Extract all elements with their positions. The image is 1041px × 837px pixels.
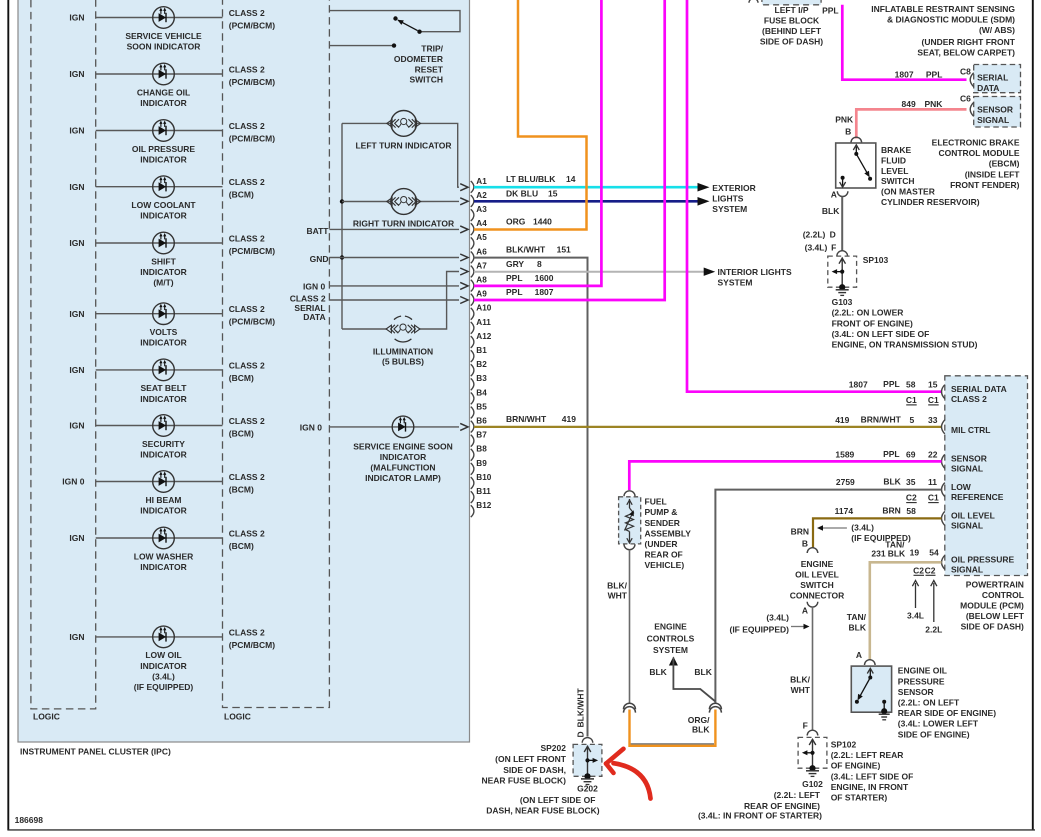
svg-text:19: 19	[910, 548, 920, 558]
fuel pump & sender assembly	[624, 491, 635, 496]
svg-text:IGN 0: IGN 0	[62, 477, 84, 487]
left turn indicator lamp	[387, 111, 421, 137]
wire PPL 1807 vertical from top to PCM serial data	[687, 0, 942, 392]
pin B2	[471, 364, 474, 376]
svg-text:SEAT, BELOW CARPET): SEAT, BELOW CARPET)	[917, 47, 1015, 57]
wire BLK/WHT 151 (A6 down to SP202)	[474, 258, 588, 737]
trip/odometer reset switch	[330, 11, 460, 32]
left I/P fuse block	[762, 0, 821, 5]
indicator HI BEAM	[153, 471, 175, 493]
svg-text:CLASS 2: CLASS 2	[229, 233, 265, 243]
svg-text:REAR SIDE OF ENGINE): REAR SIDE OF ENGINE)	[898, 708, 996, 718]
svg-text:A2: A2	[476, 191, 487, 200]
svg-text:DATA: DATA	[977, 83, 999, 93]
svg-text:PPL: PPL	[506, 273, 523, 283]
svg-text:EXTERIOR: EXTERIOR	[712, 183, 755, 193]
svg-text:INDICATOR: INDICATOR	[140, 267, 186, 277]
svg-text:CLASS 2: CLASS 2	[229, 416, 265, 426]
svg-text:B: B	[845, 127, 851, 137]
svg-text:PNK: PNK	[835, 115, 854, 125]
svg-text:CLASS 2: CLASS 2	[229, 64, 265, 74]
svg-text:LOW: LOW	[951, 482, 972, 492]
svg-text:LOGIC: LOGIC	[33, 712, 60, 722]
svg-text:ILLUMINATION: ILLUMINATION	[373, 346, 433, 356]
svg-text:BLK: BLK	[849, 623, 867, 633]
svg-text:A3: A3	[476, 205, 487, 214]
svg-text:DASH, NEAR FUSE BLOCK): DASH, NEAR FUSE BLOCK)	[486, 806, 600, 816]
svg-text:IGN: IGN	[69, 632, 84, 642]
svg-text:INDICATOR: INDICATOR	[380, 452, 426, 462]
svg-text:BLK/WHT: BLK/WHT	[506, 245, 546, 255]
pin A10	[471, 308, 474, 320]
indicator LOW OIL	[153, 626, 175, 648]
svg-text:PPL: PPL	[883, 379, 900, 389]
svg-text:OIL LEVEL: OIL LEVEL	[795, 569, 839, 579]
svg-text:ASSEMBLY: ASSEMBLY	[645, 528, 692, 538]
svg-text:CONTROLS: CONTROLS	[647, 634, 695, 644]
instrument panel cluster (IPC) box	[18, 0, 470, 742]
svg-text:(BCM): (BCM)	[229, 373, 254, 383]
svg-text:CLASS 2: CLASS 2	[951, 394, 987, 404]
ground bus wire	[341, 123, 343, 329]
svg-text:SWITCH: SWITCH	[881, 176, 915, 186]
svg-text:IGN: IGN	[69, 309, 84, 319]
svg-text:CLASS 2: CLASS 2	[229, 121, 265, 131]
svg-text:SYSTEM: SYSTEM	[653, 645, 688, 655]
wire GRY 8 (A7 to interior lights)	[474, 271, 704, 273]
svg-text:CLASS 2: CLASS 2	[229, 360, 265, 370]
page border frame	[7, 0, 9, 830]
pin B8	[471, 449, 474, 461]
svg-text:SEAT BELT: SEAT BELT	[141, 383, 188, 393]
svg-text:B2: B2	[476, 360, 487, 369]
svg-text:ENGINE OIL: ENGINE OIL	[898, 666, 947, 676]
splice SP103	[828, 256, 857, 287]
indicator OIL PRESSURE	[153, 120, 175, 142]
svg-text:(2.2L: LEFT: (2.2L: LEFT	[774, 790, 821, 800]
svg-text:8: 8	[537, 259, 542, 269]
svg-text:BATT: BATT	[306, 226, 329, 236]
svg-text:IGN 0: IGN 0	[303, 281, 325, 291]
svg-text:C2: C2	[906, 493, 917, 503]
svg-text:SIGNAL: SIGNAL	[951, 521, 983, 531]
svg-text:(3.4L: LEFT SIDE OF: (3.4L: LEFT SIDE OF	[831, 771, 914, 781]
svg-text:A: A	[831, 190, 837, 200]
svg-text:419: 419	[835, 415, 849, 425]
svg-text:SENSOR: SENSOR	[951, 454, 987, 464]
red annotation arrow	[614, 763, 651, 798]
svg-text:849: 849	[902, 99, 916, 109]
svg-text:CLASS 2: CLASS 2	[229, 528, 265, 538]
svg-text:A: A	[856, 650, 862, 660]
PCM pin SENSOR	[942, 454, 945, 468]
svg-text:D: D	[830, 230, 836, 240]
svg-text:(BCM): (BCM)	[229, 429, 254, 439]
svg-text:69: 69	[906, 449, 916, 459]
pin A8	[471, 280, 474, 292]
svg-text:SENSOR: SENSOR	[977, 104, 1013, 114]
engine oil pressure sensor	[851, 666, 891, 712]
indicator VOLTS	[153, 303, 175, 325]
wire PNK 849 to EBCM sensor signal	[856, 109, 966, 138]
wire PPL 1807 fuse block to EBCM serial data	[842, 5, 966, 80]
pin B7	[471, 435, 474, 447]
svg-text:RIGHT TURN INDICATOR: RIGHT TURN INDICATOR	[353, 219, 454, 229]
inline connector arcs right	[709, 703, 721, 709]
svg-text:(PCM/BCM): (PCM/BCM)	[229, 77, 275, 87]
svg-text:B4: B4	[476, 388, 487, 397]
svg-text:POWERTRAIN: POWERTRAIN	[966, 580, 1024, 590]
svg-text:A6: A6	[476, 247, 487, 256]
svg-text:DK BLU: DK BLU	[506, 188, 538, 198]
pin A2	[471, 195, 474, 207]
svg-text:B5: B5	[476, 402, 487, 411]
svg-text:151: 151	[557, 245, 571, 255]
pin A9	[471, 294, 474, 306]
svg-text:2.2L: 2.2L	[925, 625, 942, 635]
svg-text:SIDE OF DASH): SIDE OF DASH)	[961, 621, 1024, 631]
svg-text:INTERIOR LIGHTS: INTERIOR LIGHTS	[718, 267, 792, 277]
svg-text:CONTROL MODULE: CONTROL MODULE	[938, 148, 1019, 158]
svg-text:PUMP &: PUMP &	[645, 507, 678, 517]
svg-text:SP202: SP202	[540, 743, 566, 753]
svg-text:REAR OF: REAR OF	[645, 550, 683, 560]
svg-text:SERIAL DATA: SERIAL DATA	[951, 384, 1007, 394]
svg-text:CLASS 2: CLASS 2	[229, 8, 265, 18]
svg-text:C6: C6	[960, 94, 971, 104]
svg-text:OF STARTER): OF STARTER)	[831, 793, 888, 803]
svg-text:C1: C1	[906, 395, 917, 405]
svg-text:G102: G102	[802, 779, 823, 789]
svg-text:ENGINE: ENGINE	[801, 559, 834, 569]
svg-text:DATA: DATA	[303, 312, 325, 322]
svg-text:33: 33	[928, 415, 938, 425]
svg-text:B8: B8	[476, 445, 487, 454]
svg-text:231: 231	[871, 548, 885, 558]
svg-text:A8: A8	[476, 276, 487, 285]
svg-text:G202: G202	[577, 784, 598, 794]
pin A11	[471, 322, 474, 334]
indicator SECURITY	[153, 415, 175, 437]
svg-text:(PCM/BCM): (PCM/BCM)	[229, 21, 275, 31]
svg-text:ELECTRONIC BRAKE: ELECTRONIC BRAKE	[932, 137, 1020, 147]
exterior lights system arrows	[698, 183, 710, 192]
svg-text:LEVEL: LEVEL	[881, 166, 908, 176]
svg-text:(PCM/BCM): (PCM/BCM)	[229, 640, 275, 650]
svg-text:SIDE OF ENGINE): SIDE OF ENGINE)	[898, 729, 970, 739]
svg-text:BLK/WHT: BLK/WHT	[576, 688, 586, 728]
svg-text:SOON INDICATOR: SOON INDICATOR	[127, 41, 201, 51]
splice SP102	[798, 737, 827, 768]
svg-text:PRESSURE: PRESSURE	[898, 676, 945, 686]
svg-text:BLK: BLK	[822, 206, 840, 216]
wire PPL 1600 (A8 up to top)	[474, 0, 601, 286]
svg-text:C8: C8	[960, 67, 971, 77]
right turn indicator wire	[342, 201, 391, 203]
svg-text:B12: B12	[476, 501, 491, 510]
svg-text:(5 BULBS): (5 BULBS)	[382, 357, 424, 367]
pin B4	[471, 393, 474, 405]
svg-text:BLK: BLK	[888, 548, 906, 558]
svg-text:C1: C1	[928, 395, 939, 405]
svg-text:B11: B11	[476, 487, 491, 496]
right turn indicator lamp	[387, 189, 421, 215]
svg-text:5: 5	[909, 415, 914, 425]
illumination lamp (5 bulbs)	[386, 316, 420, 342]
svg-text:INSTRUMENT PANEL CLUSTER (IPC): INSTRUMENT PANEL CLUSTER (IPC)	[20, 747, 171, 757]
pin B5	[471, 407, 474, 419]
svg-text:ODOMETER: ODOMETER	[394, 54, 443, 64]
svg-text:PPL: PPL	[506, 287, 523, 297]
svg-text:D: D	[576, 731, 586, 737]
svg-text:(IF EQUIPPED): (IF EQUIPPED)	[729, 624, 789, 634]
svg-text:CHANGE OIL: CHANGE OIL	[137, 87, 190, 97]
svg-text:OF ENGINE): OF ENGINE)	[831, 761, 881, 771]
svg-text:C2: C2	[925, 565, 936, 575]
svg-text:IGN 0: IGN 0	[300, 422, 322, 432]
svg-text:(W/ ABS): (W/ ABS)	[979, 25, 1015, 35]
svg-text:IGN: IGN	[69, 365, 84, 375]
svg-text:BLK: BLK	[692, 724, 710, 734]
svg-text:IGN: IGN	[69, 182, 84, 192]
svg-text:(PCM/BCM): (PCM/BCM)	[229, 134, 275, 144]
svg-text:LT BLU/BLK: LT BLU/BLK	[506, 174, 556, 184]
svg-text:GRY: GRY	[506, 259, 524, 269]
svg-text:BLK: BLK	[694, 667, 712, 677]
logic box 2	[223, 0, 330, 708]
svg-text:B: B	[802, 539, 808, 549]
svg-text:(2.2L): (2.2L)	[803, 230, 826, 240]
svg-text:SENSOR: SENSOR	[898, 687, 934, 697]
svg-text:FRONT OF ENGINE): FRONT OF ENGINE)	[832, 318, 913, 328]
svg-text:1440: 1440	[533, 217, 552, 227]
svg-text:(UNDER RIGHT FRONT: (UNDER RIGHT FRONT	[922, 37, 1016, 47]
svg-text:SYSTEM: SYSTEM	[718, 277, 753, 287]
svg-text:INDICATOR: INDICATOR	[140, 98, 186, 108]
pin B11	[471, 491, 474, 503]
svg-text:A10: A10	[476, 304, 491, 313]
svg-text:SP102: SP102	[831, 740, 857, 750]
pin B9	[471, 463, 474, 475]
svg-text:TAN/: TAN/	[847, 612, 867, 622]
svg-text:419: 419	[562, 414, 576, 424]
PCM pin LOW	[942, 483, 945, 497]
svg-text:54: 54	[929, 548, 939, 558]
svg-text:(3.4L): (3.4L)	[766, 613, 789, 623]
svg-text:LOW OIL: LOW OIL	[145, 650, 181, 660]
pin A6	[471, 252, 474, 264]
svg-text:BLK/: BLK/	[607, 580, 627, 590]
svg-text:58: 58	[906, 506, 916, 516]
svg-text:SIDE OF DASH): SIDE OF DASH)	[760, 36, 823, 46]
svg-text:(3.4L): (3.4L)	[851, 522, 874, 532]
svg-text:& DIAGNOSTIC MODULE (SDM): & DIAGNOSTIC MODULE (SDM)	[887, 15, 1015, 25]
pin A3	[471, 209, 474, 221]
PCM pin OIL LEVEL	[942, 511, 945, 525]
svg-text:(ON LEFT SIDE OF: (ON LEFT SIDE OF	[520, 795, 596, 805]
svg-text:IGN: IGN	[69, 13, 84, 23]
svg-text:IGN: IGN	[69, 69, 84, 79]
svg-text:(2.2L: LEFT REAR: (2.2L: LEFT REAR	[831, 750, 904, 760]
powertrain control module (PCM) box	[945, 376, 1028, 576]
wire ORG 1440 (A4 up to top)	[474, 0, 587, 230]
svg-text:PPL: PPL	[926, 70, 943, 80]
indicator SHIFT	[153, 232, 175, 254]
pin B12	[471, 505, 474, 517]
indicator CHANGE OIL	[153, 63, 175, 85]
svg-text:(BEHIND LEFT: (BEHIND LEFT	[762, 26, 822, 36]
EBCM sensor signal box	[974, 97, 1021, 128]
svg-text:F: F	[831, 243, 836, 253]
left turn indicator wire	[342, 122, 391, 124]
svg-text:SENDER: SENDER	[645, 518, 680, 528]
svg-text:1174: 1174	[835, 506, 854, 516]
svg-text:15: 15	[928, 380, 938, 390]
svg-text:SP103: SP103	[863, 255, 889, 265]
svg-text:1807: 1807	[895, 70, 914, 80]
svg-text:(PCM/BCM): (PCM/BCM)	[229, 246, 275, 256]
svg-text:(BCM): (BCM)	[229, 190, 254, 200]
svg-text:MODULE (PCM): MODULE (PCM)	[960, 601, 1024, 611]
svg-text:BRN/WHT: BRN/WHT	[506, 414, 547, 424]
svg-text:SHIFT: SHIFT	[151, 256, 176, 266]
pin A12	[471, 336, 474, 348]
svg-text:A9: A9	[476, 290, 487, 299]
svg-text:(UNDER: (UNDER	[645, 539, 678, 549]
svg-text:A: A	[802, 606, 808, 616]
wire BLK/WHT oil level connector down	[812, 607, 814, 730]
svg-text:WHT: WHT	[791, 685, 811, 695]
svg-text:(3.4L: ON LEFT SIDE OF: (3.4L: ON LEFT SIDE OF	[832, 329, 930, 339]
svg-text:SERVICE ENGINE SOON: SERVICE ENGINE SOON	[353, 441, 453, 451]
svg-text:INDICATOR: INDICATOR	[140, 338, 186, 348]
svg-text:FRONT FENDER): FRONT FENDER)	[950, 180, 1020, 190]
svg-text:3.4L: 3.4L	[907, 611, 924, 621]
3.4L / 2.2L pin arrows	[915, 583, 917, 608]
svg-text:INDICATOR: INDICATOR	[140, 505, 186, 515]
svg-text:SIDE OF DASH,: SIDE OF DASH,	[503, 765, 566, 775]
svg-text:LIGHTS: LIGHTS	[712, 194, 743, 204]
pin D label	[576, 688, 586, 728]
inline connector arcs left	[624, 703, 636, 709]
PCM pin SERIAL DATA	[942, 385, 945, 399]
svg-text:(IF EQUIPPED): (IF EQUIPPED)	[134, 682, 194, 692]
svg-text:(PCM/BCM): (PCM/BCM)	[229, 317, 275, 327]
svg-text:186698: 186698	[15, 815, 44, 825]
pin A7	[471, 266, 474, 278]
svg-text:(MALFUNCTION: (MALFUNCTION	[370, 463, 435, 473]
svg-text:OIL PRESSURE: OIL PRESSURE	[951, 555, 1014, 565]
svg-text:(3.4L: LOWER LEFT: (3.4L: LOWER LEFT	[898, 719, 979, 729]
svg-text:35: 35	[906, 477, 916, 487]
svg-text:1807: 1807	[849, 380, 868, 390]
svg-text:HI BEAM: HI BEAM	[146, 495, 182, 505]
svg-text:A1: A1	[476, 177, 487, 186]
pin A5	[471, 237, 474, 249]
pin B6	[471, 421, 474, 433]
svg-text:(M/T): (M/T)	[153, 278, 173, 288]
pin B10	[471, 477, 474, 489]
svg-text:SIGNAL: SIGNAL	[977, 115, 1009, 125]
EBCM serial data box	[974, 65, 1021, 93]
PCM pin MIL CTRL	[942, 420, 945, 434]
svg-text:ENGINE, IN FRONT: ENGINE, IN FRONT	[831, 782, 909, 792]
svg-text:1807: 1807	[535, 287, 554, 297]
svg-text:(ON MASTER: (ON MASTER	[881, 187, 935, 197]
svg-text:14: 14	[566, 174, 576, 184]
svg-text:LEFT I/P: LEFT I/P	[775, 5, 809, 15]
indicator SEAT BELT	[153, 359, 175, 381]
pin B3	[471, 378, 474, 390]
svg-text:11: 11	[928, 477, 937, 487]
svg-text:CLASS 2: CLASS 2	[229, 304, 265, 314]
splice SP202	[573, 744, 602, 776]
svg-text:ENGINE: ENGINE	[654, 622, 687, 632]
svg-text:IGN: IGN	[69, 421, 84, 431]
svg-text:(3.4L): (3.4L)	[805, 243, 828, 253]
wire BLK/WHT fuel pump down	[629, 550, 631, 704]
svg-text:INDICATOR: INDICATOR	[140, 211, 186, 221]
svg-text:CLASS 2: CLASS 2	[229, 472, 265, 482]
svg-text:(EBCM): (EBCM)	[989, 158, 1020, 168]
svg-text:(ON LEFT FRONT: (ON LEFT FRONT	[495, 754, 567, 764]
wire ORG/BLK jumper	[631, 743, 715, 745]
wire BRN 1174 to PCM oil level	[813, 518, 942, 548]
svg-text:BRN: BRN	[882, 506, 900, 516]
pin A4	[471, 223, 474, 235]
svg-text:PPL: PPL	[822, 6, 839, 16]
svg-text:FUEL: FUEL	[645, 497, 667, 507]
svg-text:BLK/: BLK/	[790, 675, 810, 685]
svg-text:B7: B7	[476, 431, 487, 440]
svg-text:B1: B1	[476, 346, 487, 355]
svg-text:(IF EQUIPPED): (IF EQUIPPED)	[851, 533, 911, 543]
svg-text:INDICATOR: INDICATOR	[140, 661, 186, 671]
wire BLK brake switch to SP103	[841, 197, 843, 251]
service engine soon indicator	[392, 416, 414, 438]
svg-text:BRN/WHT: BRN/WHT	[861, 414, 902, 424]
wire DK BLU 15 (A2 to exterior lights)	[474, 200, 705, 203]
svg-text:(INSIDE LEFT: (INSIDE LEFT	[965, 170, 1021, 180]
svg-text:IGN: IGN	[69, 238, 84, 248]
svg-text:LOGIC: LOGIC	[224, 712, 251, 722]
svg-text:MIL CTRL: MIL CTRL	[951, 425, 991, 435]
indicator LOW COOLANT	[153, 176, 175, 198]
svg-text:(BCM): (BCM)	[229, 485, 254, 495]
svg-text:(3.4L: IN FRONT OF STARTER): (3.4L: IN FRONT OF STARTER)	[698, 811, 822, 821]
svg-text:CONTROL: CONTROL	[982, 590, 1024, 600]
svg-text:G103: G103	[832, 297, 853, 307]
svg-text:IGN: IGN	[69, 126, 84, 136]
indicator LOW WASHER	[153, 527, 175, 549]
svg-text:ENGINE, ON TRANSMISSION STUD): ENGINE, ON TRANSMISSION STUD)	[832, 340, 978, 350]
svg-text:OIL PRESSURE: OIL PRESSURE	[132, 144, 195, 154]
svg-text:C2: C2	[913, 565, 924, 575]
svg-text:INFLATABLE RESTRAINT SENSING: INFLATABLE RESTRAINT SENSING	[871, 4, 1015, 14]
svg-text:PNK: PNK	[924, 99, 943, 109]
svg-text:F: F	[803, 721, 808, 731]
svg-text:NEAR FUSE BLOCK): NEAR FUSE BLOCK)	[481, 776, 566, 786]
svg-text:CONNECTOR: CONNECTOR	[790, 591, 845, 601]
svg-text:SIGNAL: SIGNAL	[951, 565, 983, 575]
svg-text:LOW WASHER: LOW WASHER	[134, 551, 194, 561]
svg-text:FLUID: FLUID	[881, 155, 906, 165]
svg-text:VEHICLE): VEHICLE)	[645, 560, 685, 570]
svg-text:(BCM): (BCM)	[229, 541, 254, 551]
wire LT BLU/BLK 14 (A1 to exterior lights)	[474, 186, 705, 189]
wire PPL 1589 fuel pump to PCM sensor signal	[629, 461, 941, 490]
svg-text:B9: B9	[476, 459, 487, 468]
